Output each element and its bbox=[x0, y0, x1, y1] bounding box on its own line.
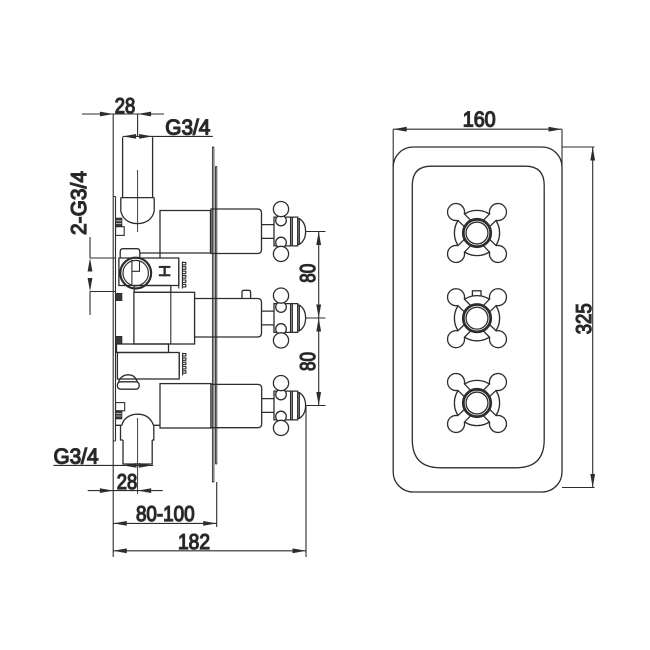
top inlet pipe bbox=[123, 137, 153, 197]
svg-text:G3/4: G3/4 bbox=[165, 116, 210, 140]
mounting bolt 1 bbox=[116, 218, 125, 235]
top pipe fitting bbox=[121, 198, 154, 224]
cartridge 3 bbox=[211, 384, 262, 427]
top pipe centerline bbox=[137, 170, 139, 232]
dim 80-100 bbox=[113, 522, 216, 524]
wall bracket bar bbox=[112, 115, 114, 558]
svg-text:80: 80 bbox=[296, 352, 320, 371]
mounting bolt 4 bbox=[116, 403, 125, 419]
cartridge 1 bbox=[211, 209, 262, 254]
ext handle 3 bbox=[306, 405, 326, 407]
dim 2-G3/4 bbox=[90, 237, 116, 315]
svg-text:2-G3/4: 2-G3/4 bbox=[67, 171, 91, 235]
mounting plate edge-on bbox=[212, 147, 214, 482]
dim 160 bbox=[393, 129, 562, 167]
dim G3/4 bottom bbox=[54, 464, 154, 466]
lower flange bbox=[117, 344, 169, 353]
tab on middle handle bbox=[472, 291, 481, 299]
mid flange bbox=[134, 286, 171, 293]
svg-text:28: 28 bbox=[115, 94, 136, 118]
port circle H bbox=[120, 258, 151, 289]
dim 325 bbox=[562, 147, 595, 488]
cartridge button bbox=[242, 290, 251, 298]
svg-text:80: 80 bbox=[296, 264, 320, 283]
dim 28 top bbox=[82, 114, 164, 138]
dim G3/4 top bbox=[123, 135, 213, 137]
ext handle 2 bbox=[306, 317, 326, 319]
svg-text:182: 182 bbox=[178, 530, 210, 554]
bottom pipe centerline bbox=[137, 418, 139, 494]
bottom body block bbox=[160, 384, 211, 428]
inner plate face bbox=[412, 166, 544, 468]
outer plate bbox=[393, 147, 562, 492]
dim 182 bbox=[113, 550, 306, 552]
handle side 1 bbox=[262, 202, 306, 262]
front handle 2 bbox=[444, 285, 510, 351]
top body block bbox=[140, 211, 211, 259]
mounting bolt 3 bbox=[116, 337, 122, 344]
label H (rotated) bbox=[159, 266, 171, 276]
lower block bbox=[117, 353, 179, 380]
ext handle 1 bbox=[306, 231, 326, 233]
threaded stub top bbox=[179, 262, 186, 289]
mid cartridge bbox=[195, 299, 262, 338]
svg-text:28: 28 bbox=[117, 470, 138, 494]
upper port boss bbox=[120, 249, 140, 258]
H manifold block bbox=[119, 258, 179, 286]
svg-text:80-100: 80-100 bbox=[136, 502, 195, 526]
dim 28 bottom bbox=[88, 490, 163, 492]
threaded stub bottom bbox=[179, 353, 186, 376]
mid body block bbox=[134, 292, 195, 344]
handle side 3 bbox=[262, 376, 306, 436]
dim 80 upper bbox=[318, 232, 320, 406]
front handle 1 bbox=[444, 200, 510, 266]
svg-text:G3/4: G3/4 bbox=[54, 445, 99, 469]
svg-text:160: 160 bbox=[463, 108, 496, 132]
front handle 3 bbox=[444, 370, 510, 436]
bottom outlet pipe bbox=[123, 440, 152, 464]
bottom fitting body bbox=[121, 425, 154, 440]
svg-text:325: 325 bbox=[572, 303, 596, 334]
mid body block inner seam bbox=[170, 292, 172, 344]
bottom elbow dome bbox=[116, 414, 161, 425]
dim 80 lower bbox=[316, 318, 321, 332]
lower port boss bbox=[119, 375, 138, 382]
handle side 2 bbox=[262, 288, 306, 348]
mounting bolt 2 bbox=[116, 294, 122, 301]
